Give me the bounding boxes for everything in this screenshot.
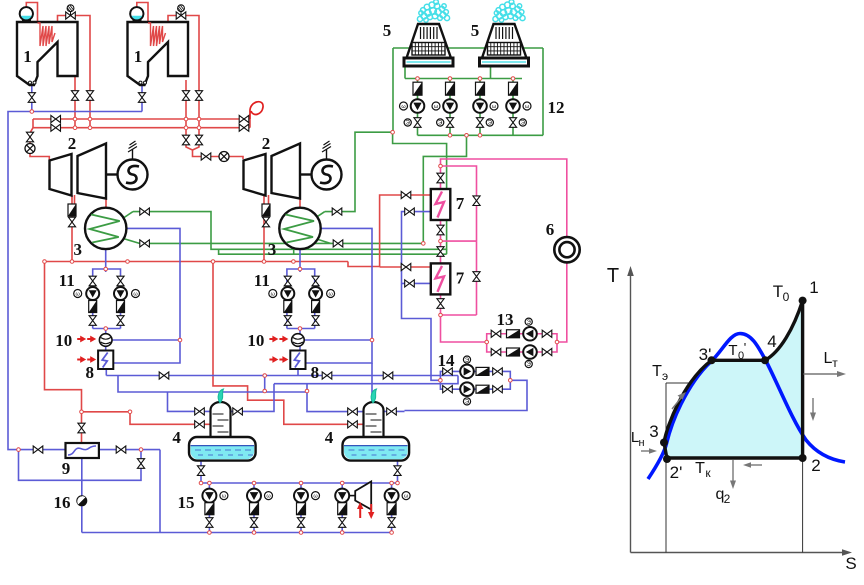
svg-text:ω: ω: [328, 291, 333, 297]
svg-text:10: 10: [247, 331, 264, 350]
svg-text:Т: Т: [652, 363, 662, 380]
svg-text:0: 0: [783, 290, 790, 304]
svg-text:11: 11: [59, 271, 75, 290]
svg-text:Т: Т: [607, 265, 619, 287]
svg-text:4: 4: [172, 428, 181, 447]
svg-text:15: 15: [178, 493, 195, 512]
svg-text:4: 4: [325, 428, 334, 447]
svg-text:Э: Э: [521, 121, 526, 127]
svg-text:Т: Т: [728, 342, 737, 359]
svg-text:Э: Э: [527, 362, 532, 368]
svg-text:3': 3': [699, 345, 712, 364]
svg-text:2: 2: [68, 134, 77, 153]
svg-text:ω: ω: [133, 291, 138, 297]
svg-text:8: 8: [85, 363, 94, 382]
svg-text:т: т: [832, 356, 838, 370]
svg-text:3: 3: [649, 422, 658, 441]
svg-text:Т: Т: [773, 282, 783, 301]
svg-text:1: 1: [809, 278, 818, 297]
svg-text:6: 6: [546, 220, 555, 239]
svg-text:1: 1: [134, 47, 143, 66]
svg-text:9: 9: [62, 459, 71, 478]
svg-text:14: 14: [438, 351, 456, 370]
svg-text:к: к: [705, 466, 711, 480]
svg-text:7: 7: [456, 268, 465, 287]
svg-text:L: L: [824, 350, 833, 367]
svg-text:3: 3: [73, 240, 82, 259]
svg-text:ω: ω: [434, 104, 439, 110]
svg-text:5: 5: [471, 21, 480, 40]
svg-text:Э: Э: [488, 121, 493, 127]
svg-text:ω: ω: [271, 291, 276, 297]
svg-text:10: 10: [55, 331, 72, 350]
svg-text:ω: ω: [313, 493, 318, 499]
svg-text:н: н: [638, 437, 644, 449]
svg-text:ω: ω: [76, 291, 81, 297]
svg-text:16: 16: [54, 493, 71, 512]
svg-text:2: 2: [262, 134, 271, 153]
svg-text:э: э: [662, 369, 668, 383]
svg-text:ω: ω: [525, 104, 530, 110]
svg-text:11: 11: [254, 271, 270, 290]
svg-text:5: 5: [383, 21, 392, 40]
svg-text:ω: ω: [404, 493, 409, 499]
svg-text:7: 7: [456, 194, 465, 213]
svg-text:ω: ω: [492, 104, 497, 110]
svg-text:13: 13: [497, 310, 514, 329]
svg-text:2': 2': [670, 463, 683, 482]
svg-text:12: 12: [548, 98, 565, 117]
svg-text:Э: Э: [465, 400, 470, 406]
svg-text:ω: ω: [266, 493, 271, 499]
svg-text:Э: Э: [406, 121, 411, 127]
svg-text:Э: Э: [438, 121, 443, 127]
svg-text:Э: Э: [465, 358, 470, 364]
svg-text:Э: Э: [527, 320, 532, 326]
svg-text:ω: ω: [222, 493, 227, 499]
svg-text:1: 1: [23, 47, 32, 66]
svg-text:S: S: [845, 554, 856, 573]
svg-text:': ': [744, 340, 746, 355]
svg-text:4: 4: [767, 332, 776, 351]
svg-text:ω: ω: [401, 104, 406, 110]
svg-text:3: 3: [268, 240, 277, 259]
svg-text:2: 2: [811, 456, 820, 475]
svg-text:8: 8: [311, 363, 320, 382]
svg-text:Т: Т: [695, 460, 705, 477]
svg-text:2: 2: [724, 492, 731, 506]
